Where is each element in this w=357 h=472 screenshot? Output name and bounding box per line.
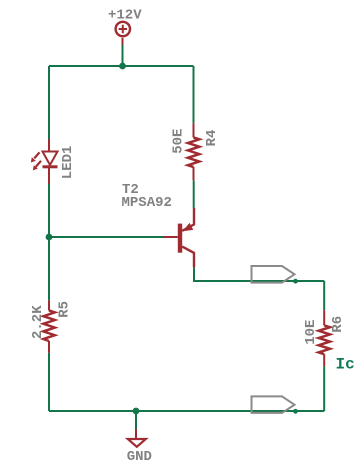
wire left rail middle bbox=[48, 184, 50, 300]
junction top bbox=[119, 63, 126, 70]
svg-text:Ic: Ic bbox=[336, 355, 355, 373]
transistor T2 (PNP MPSA92) bbox=[163, 208, 194, 267]
wire R4 to transistor emitter bbox=[193, 180, 195, 208]
wire bottom rail bbox=[49, 410, 324, 412]
wire GND stem bbox=[135, 411, 137, 429]
resistor R6 bbox=[319, 310, 330, 366]
wire right upper rail bbox=[193, 66, 195, 123]
junction flag upper bbox=[293, 279, 298, 284]
svg-text:LED1: LED1 bbox=[60, 146, 76, 180]
wire left rail lower bbox=[48, 353, 50, 411]
svg-text:R6: R6 bbox=[330, 316, 346, 333]
junction bottom bbox=[133, 408, 140, 415]
svg-text:50E: 50E bbox=[170, 129, 186, 154]
wire +12V stem bbox=[122, 45, 124, 66]
svg-text:MPSA92: MPSA92 bbox=[122, 195, 172, 211]
ground GND symbol bbox=[128, 429, 146, 447]
svg-text:+12V: +12V bbox=[108, 8, 142, 24]
LED LED1 bbox=[34, 139, 57, 184]
resistor R4 bbox=[188, 123, 199, 180]
resistor R5 bbox=[43, 300, 54, 353]
svg-text:GND: GND bbox=[127, 449, 152, 465]
wire right rail lower bbox=[323, 366, 325, 411]
junction flag lower bbox=[293, 409, 298, 414]
wire top rail bbox=[49, 65, 194, 67]
flag port lower bbox=[252, 396, 295, 413]
junction base bbox=[46, 234, 53, 241]
flag port upper bbox=[252, 266, 295, 283]
svg-text:10E: 10E bbox=[303, 320, 319, 345]
wire left rail upper bbox=[48, 66, 50, 139]
supply +12V symbol bbox=[116, 22, 130, 45]
svg-text:R5: R5 bbox=[56, 301, 72, 318]
wire right rail upper bbox=[323, 281, 325, 310]
wire base net bbox=[49, 236, 163, 238]
svg-text:2.2K: 2.2K bbox=[30, 305, 46, 339]
svg-text:R4: R4 bbox=[204, 130, 220, 147]
wire collector to flag corner bbox=[194, 267, 324, 281]
